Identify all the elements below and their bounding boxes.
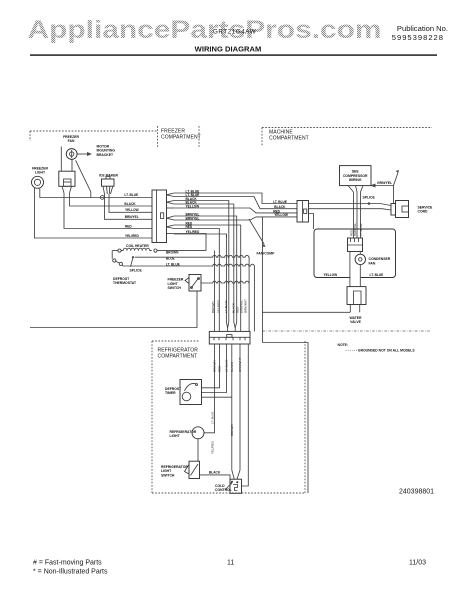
svg-text:COMPARTMENT: COMPARTMENT [158, 354, 198, 360]
svg-text:# = Fast-moving Parts: # = Fast-moving Parts [33, 560, 102, 567]
svg-text:- - - - - - GROUNDED NOT ON A: - - - - - - GROUNDED NOT ON ALL MODELS [346, 349, 416, 353]
svg-text:BLACK: BLACK [124, 202, 136, 206]
svg-text:BLACK: BLACK [209, 470, 221, 474]
svg-text:BRN/WHT: BRN/WHT [244, 299, 248, 313]
svg-text:5995398228: 5995398228 [392, 33, 444, 42]
svg-text:CORD: CORD [418, 210, 429, 214]
svg-text:LIGHT: LIGHT [170, 434, 181, 438]
svg-text:* = Non-Illustrated Parts: * = Non-Illustrated Parts [33, 569, 108, 576]
svg-text:COMPARTMENT: COMPARTMENT [161, 135, 201, 141]
svg-text:ICE MAKER: ICE MAKER [99, 174, 119, 178]
svg-text:FAN/COMP: FAN/COMP [257, 252, 276, 256]
svg-text:SPLICE: SPLICE [130, 268, 143, 272]
svg-text:CONTROL: CONTROL [215, 488, 232, 492]
svg-text:BROWN: BROWN [230, 425, 234, 437]
svg-text:YEL/RED: YEL/RED [211, 440, 215, 454]
svg-text:GRT21G4AW: GRT21G4AW [213, 29, 256, 36]
svg-text:VALVE: VALVE [350, 320, 362, 324]
svg-text:WIRING DIAGRAM: WIRING DIAGRAM [195, 45, 262, 54]
svg-text:11: 11 [227, 560, 234, 567]
svg-text:LT. BLUE: LT. BLUE [273, 200, 287, 204]
svg-text:SWITCH: SWITCH [168, 286, 182, 290]
svg-text:YELLOW: YELLOW [125, 208, 139, 212]
svg-text:YEL/RED: YEL/RED [125, 234, 140, 238]
svg-text:LT. BLUE: LT. BLUE [359, 224, 363, 236]
svg-text:FAN: FAN [68, 139, 75, 143]
svg-text:LT. BLUE: LT. BLUE [224, 301, 228, 313]
svg-text:SWITCH: SWITCH [161, 473, 175, 477]
svg-text:LT. BLUE: LT. BLUE [211, 412, 215, 424]
svg-text:YELLOW: YELLOW [274, 213, 288, 217]
svg-text:RED: RED [125, 224, 132, 228]
svg-text:BRN/YEL: BRN/YEL [125, 215, 139, 219]
svg-text:Publication No.: Publication No. [397, 24, 448, 33]
svg-text:LT. BLUE: LT. BLUE [124, 193, 138, 197]
svg-text:NOTE:: NOTE: [338, 343, 349, 347]
svg-text:LIGHT: LIGHT [35, 171, 46, 175]
svg-text:BRACKET: BRACKET [97, 153, 115, 157]
svg-text:TIMER: TIMER [165, 391, 176, 395]
svg-text:COIL HEATER: COIL HEATER [126, 244, 149, 248]
svg-text:LT. BLUE: LT. BLUE [370, 273, 384, 277]
svg-text:AppliancePartsPros.com: AppliancePartsPros.com [28, 16, 382, 44]
svg-text:BROWN: BROWN [211, 302, 215, 314]
svg-text:GRN/YEL: GRN/YEL [377, 181, 392, 185]
svg-text:COMPARTMENT: COMPARTMENT [269, 136, 309, 142]
svg-text:FAN: FAN [369, 261, 376, 265]
svg-text:WIRING: WIRING [349, 178, 362, 182]
svg-text:YELLOW: YELLOW [324, 273, 338, 277]
svg-text:BROWN: BROWN [166, 250, 179, 254]
svg-text:YEL/RED: YEL/RED [217, 299, 221, 313]
svg-text:SPLICE: SPLICE [363, 196, 376, 200]
svg-text:THERMOSTAT: THERMOSTAT [113, 281, 137, 285]
svg-text:240398801: 240398801 [399, 489, 434, 496]
svg-text:11/03: 11/03 [409, 560, 426, 567]
